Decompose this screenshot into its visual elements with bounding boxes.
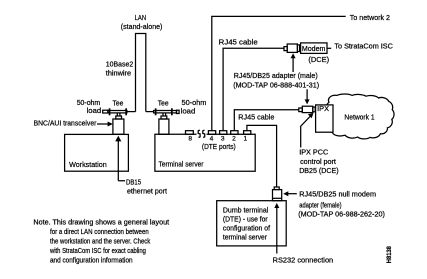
svg-text:thinwire: thinwire xyxy=(106,69,131,78)
svg-text:RJ45 cable: RJ45 cable xyxy=(219,37,258,46)
svg-text:RJ45/DB25 null modem: RJ45/DB25 null modem xyxy=(299,190,376,199)
svg-text:RJ45/DB25 adapter (male): RJ45/DB25 adapter (male) xyxy=(234,71,318,80)
svg-text:Tee: Tee xyxy=(158,99,169,108)
svg-text:with StrataCom ISC for exact c: with StrataCom ISC for exact cabling xyxy=(49,248,146,255)
svg-text:RS232 connection: RS232 connection xyxy=(273,256,334,265)
svg-text:the workstation and the server: the workstation and the server. Check xyxy=(50,238,151,245)
svg-text:Terminal server: Terminal server xyxy=(159,160,205,169)
svg-text:To StrataCom ISC: To StrataCom ISC xyxy=(334,41,393,50)
svg-text:(DCE): (DCE) xyxy=(308,55,329,64)
svg-text:(DTE ports): (DTE ports) xyxy=(202,142,236,151)
svg-text:Note. This drawing shows a gen: Note. This drawing shows a general layou… xyxy=(33,219,169,226)
svg-text:for a direct LAN connection be: for a direct LAN connection between xyxy=(50,229,149,236)
svg-text:8: 8 xyxy=(188,135,192,142)
svg-text:DB15: DB15 xyxy=(126,178,141,187)
svg-text:(MOD-TAP 06-888-401-31): (MOD-TAP 06-888-401-31) xyxy=(233,80,319,89)
svg-text:50-ohm: 50-ohm xyxy=(182,98,207,107)
svg-text:1: 1 xyxy=(243,135,247,142)
svg-text:Tee: Tee xyxy=(113,99,124,108)
svg-text:ethernet port: ethernet port xyxy=(127,186,167,195)
svg-text:IPX PCC: IPX PCC xyxy=(299,148,328,157)
svg-text:adapter (female): adapter (female) xyxy=(299,201,341,210)
svg-text:Workstation: Workstation xyxy=(69,160,107,169)
svg-text:configuration of: configuration of xyxy=(223,224,271,233)
svg-text:LAN: LAN xyxy=(135,13,147,22)
svg-text:load: load xyxy=(181,107,196,116)
svg-text:load: load xyxy=(87,106,102,115)
svg-text:IPX: IPX xyxy=(317,104,329,113)
svg-text:Modem: Modem xyxy=(302,44,326,53)
svg-text:control port: control port xyxy=(300,157,336,166)
svg-text:Dumb terminal: Dumb terminal xyxy=(223,206,269,215)
svg-text:BNC/AUI transceiver: BNC/AUI transceiver xyxy=(34,119,97,128)
svg-text:Network 1: Network 1 xyxy=(344,112,374,121)
svg-text:terminal server: terminal server xyxy=(223,233,268,242)
svg-text:To network 2: To network 2 xyxy=(350,13,390,22)
svg-text:(stand-alone): (stand-alone) xyxy=(121,22,163,31)
svg-text:10Base2: 10Base2 xyxy=(106,59,133,68)
svg-text:(DTE) - use for: (DTE) - use for xyxy=(223,215,268,224)
svg-text:(MOD-TAP 06-988-262-20): (MOD-TAP 06-988-262-20) xyxy=(298,209,385,218)
svg-text:DB25 (DCE): DB25 (DCE) xyxy=(299,166,338,175)
svg-text:H8138: H8138 xyxy=(386,246,393,263)
svg-text:RJ45 cable: RJ45 cable xyxy=(238,113,274,122)
svg-text:and configuration information: and configuration information xyxy=(50,257,133,264)
